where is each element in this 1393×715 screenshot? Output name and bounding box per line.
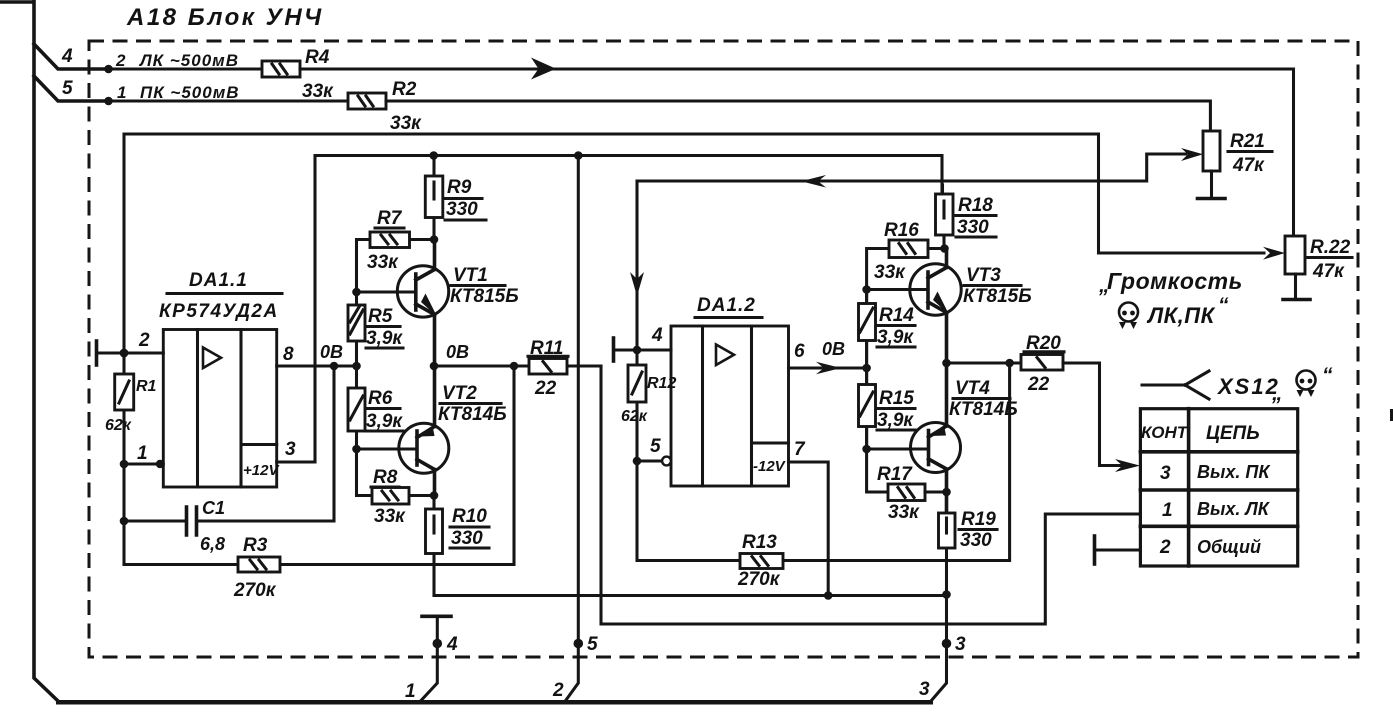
node 0V mid bbox=[352, 362, 361, 371]
svg-text:270к: 270к bbox=[737, 569, 781, 590]
input lead 4 bbox=[34, 44, 108, 69]
wire ЛК input to R4 bbox=[108, 51, 262, 70]
svg-text:3: 3 bbox=[955, 634, 966, 655]
node pin1 box edge bbox=[156, 460, 164, 468]
node VT2 collector / R8 bbox=[430, 491, 439, 500]
wire R21 wiper to DA1.2 input bbox=[637, 154, 1186, 350]
svg-text:33к: 33к bbox=[888, 502, 920, 523]
svg-text:3,9к: 3,9к bbox=[366, 411, 403, 432]
arrow into DA1.2 input bbox=[630, 272, 644, 296]
svg-text:4: 4 bbox=[651, 325, 663, 346]
svg-text:R14: R14 bbox=[879, 305, 914, 326]
svg-text:КТ815Б: КТ815Б bbox=[450, 286, 519, 307]
svg-text:КТ814Б: КТ814Б bbox=[949, 399, 1018, 420]
svg-text:R18: R18 bbox=[958, 195, 993, 216]
+12V rail bbox=[315, 156, 942, 463]
svg-text:КТ815Б: КТ815Б bbox=[963, 286, 1032, 307]
svg-text:XS12: XS12 bbox=[1216, 374, 1280, 399]
resistor R13 bbox=[637, 363, 1010, 590]
arrow on R21 wiper line bbox=[801, 175, 826, 188]
resistor R4 bbox=[262, 47, 334, 102]
node R9 bottom / R7 / VT1 collector bbox=[430, 235, 439, 244]
capacitor C1 bbox=[124, 366, 334, 554]
svg-text:33к: 33к bbox=[390, 113, 422, 134]
input lead 5 bbox=[34, 76, 108, 101]
transistor VT2 bbox=[399, 366, 507, 496]
svg-text:R3: R3 bbox=[243, 535, 268, 556]
svg-text:330: 330 bbox=[960, 530, 992, 551]
svg-text:33к: 33к bbox=[374, 506, 406, 527]
resistor R15 bbox=[859, 368, 916, 449]
svg-text:47к: 47к bbox=[1312, 261, 1345, 282]
svg-text:1: 1 bbox=[117, 83, 126, 102]
svg-text:R.22: R.22 bbox=[1310, 237, 1351, 258]
svg-text:62к: 62к bbox=[105, 417, 132, 434]
svg-text:DA1.2: DA1.2 bbox=[697, 295, 756, 316]
svg-text:+12V: +12V bbox=[243, 462, 280, 479]
pin 8 of DA1.1 bbox=[277, 342, 357, 366]
terminal 5 bbox=[574, 639, 584, 649]
resistor R3 bbox=[124, 366, 514, 601]
svg-text:33к: 33к bbox=[302, 81, 334, 102]
node ЛК input bbox=[104, 65, 113, 74]
svg-text:R7: R7 bbox=[377, 208, 403, 229]
svg-text:КТ814Б: КТ814Б bbox=[438, 404, 507, 425]
svg-text:330: 330 bbox=[446, 199, 478, 220]
wire ПК input to R2 bbox=[108, 83, 348, 102]
svg-text:3,9к: 3,9к bbox=[366, 328, 403, 349]
svg-text:R12: R12 bbox=[647, 375, 676, 392]
node VT2 base bbox=[352, 445, 361, 454]
svg-text:33к: 33к bbox=[874, 262, 906, 283]
ground common for XS12 pin2 bbox=[1095, 536, 1141, 564]
pin 5 of DA1.2 bbox=[637, 436, 671, 465]
transistor VT3 bbox=[910, 249, 1032, 364]
node R13 to output node bbox=[1005, 359, 1014, 368]
wire base VT1 bbox=[357, 290, 416, 293]
svg-text:Общий: Общий bbox=[1197, 537, 1261, 557]
terminal 4 bbox=[433, 639, 443, 649]
svg-text:R5: R5 bbox=[368, 306, 393, 327]
svg-text:0В: 0В bbox=[320, 342, 343, 362]
svg-text:0В: 0В bbox=[822, 339, 845, 359]
svg-text:“: “ bbox=[1322, 364, 1333, 387]
wire R20 out to XS12 row3 bbox=[1063, 363, 1140, 472]
svg-text:VT4: VT4 bbox=[955, 378, 990, 399]
node VT3 emitter / output bbox=[942, 359, 951, 368]
wire R4 to R22 top bbox=[300, 58, 1294, 237]
resistor R19 bbox=[931, 509, 997, 701]
svg-text:4: 4 bbox=[446, 634, 458, 655]
node input R1 bbox=[120, 349, 129, 358]
node VT1 emitter / 0V out bbox=[430, 362, 439, 371]
svg-text:5: 5 bbox=[587, 634, 598, 655]
svg-text:5: 5 bbox=[62, 78, 73, 99]
svg-text:ПК ~500мВ: ПК ~500мВ bbox=[140, 83, 240, 102]
svg-text:C1: C1 bbox=[202, 498, 225, 518]
resistor R20 bbox=[1021, 333, 1064, 395]
svg-text:2: 2 bbox=[115, 51, 126, 70]
svg-text:VT3: VT3 bbox=[966, 265, 1001, 286]
wire base VT4 bbox=[867, 447, 929, 450]
module dashed border bbox=[89, 41, 1358, 657]
svg-text:КОНТ: КОНТ bbox=[1141, 423, 1189, 442]
node pin7 to -12V bbox=[824, 591, 833, 600]
resistor R2 bbox=[348, 79, 422, 134]
resistor R7 bbox=[357, 208, 435, 292]
node VT4 collector / R17 bbox=[942, 488, 951, 497]
svg-text:270к: 270к bbox=[233, 580, 277, 601]
resistor R18 bbox=[936, 185, 997, 249]
pin 6 of DA1.2 bbox=[789, 339, 867, 374]
node ПК input bbox=[104, 97, 113, 106]
svg-text:А18 Блок УНЧ: А18 Блок УНЧ bbox=[126, 4, 324, 31]
op-amp DA1.2 bbox=[671, 295, 789, 486]
node 0V right mid bbox=[862, 364, 871, 373]
svg-text:VT2: VT2 bbox=[442, 383, 477, 404]
svg-text:3,9к: 3,9к bbox=[877, 410, 914, 431]
svg-text:R21: R21 bbox=[1230, 131, 1265, 152]
svg-text:1: 1 bbox=[405, 681, 416, 702]
transistor VT1 bbox=[397, 240, 518, 367]
svg-text:DA1.1: DA1.1 bbox=[189, 270, 248, 291]
svg-text:8: 8 bbox=[283, 344, 294, 365]
node rail R9 bbox=[429, 151, 438, 160]
right bias rail bbox=[867, 249, 889, 493]
svg-text:33к: 33к bbox=[367, 252, 399, 273]
svg-text:R2: R2 bbox=[392, 79, 417, 100]
svg-text:2: 2 bbox=[552, 680, 564, 701]
node pin4 / R12 top bbox=[633, 346, 642, 355]
pin 1 of DA1.1 bbox=[124, 443, 163, 464]
svg-text:3: 3 bbox=[1160, 463, 1171, 484]
svg-text:6: 6 bbox=[794, 341, 805, 362]
left rail down bbox=[122, 464, 125, 565]
node C1 left bbox=[120, 517, 129, 526]
ground common for pin 4 bbox=[422, 616, 452, 700]
svg-text:7: 7 bbox=[794, 439, 806, 460]
svg-text:ЛК ~500мВ: ЛК ~500мВ bbox=[138, 51, 239, 70]
svg-text:2: 2 bbox=[138, 330, 150, 351]
op-amp DA1.1 bbox=[159, 270, 282, 487]
resistor R5 bbox=[348, 292, 403, 366]
potentiometer R22 bbox=[1263, 236, 1352, 300]
svg-text:-12V: -12V bbox=[753, 458, 787, 475]
svg-text:330: 330 bbox=[957, 217, 989, 238]
svg-text:R6: R6 bbox=[368, 388, 393, 409]
node pin1 left bbox=[120, 460, 129, 469]
resistor R17 bbox=[877, 464, 947, 523]
node VT3 base bbox=[862, 285, 871, 294]
pin 3 of DA1.1 bbox=[277, 439, 315, 462]
svg-text:Вых. ЛК: Вых. ЛК bbox=[1197, 499, 1271, 519]
node rail pin5 bbox=[574, 151, 583, 160]
svg-text:„: „ bbox=[1271, 382, 1283, 405]
resistor R6 bbox=[348, 366, 403, 449]
svg-text:330: 330 bbox=[451, 528, 483, 549]
svg-text:3: 3 bbox=[919, 679, 930, 700]
resistor R16 bbox=[874, 220, 945, 283]
wire R2 to R21 top bbox=[386, 101, 1210, 131]
wire R22 wiper to DA1.1 input bbox=[124, 134, 1264, 353]
svg-text:R1: R1 bbox=[136, 378, 157, 395]
node C1 to 0V bbox=[330, 362, 339, 371]
svg-text:22: 22 bbox=[1027, 374, 1050, 395]
svg-text:ЛК,ПК: ЛК,ПК bbox=[1146, 303, 1216, 328]
node VT1 base bbox=[352, 288, 361, 297]
svg-text:2: 2 bbox=[1159, 537, 1171, 558]
wire -12V rail bbox=[434, 594, 946, 597]
wire R11 out to XS12 row1 bbox=[601, 366, 1140, 624]
node R3 to 0V bbox=[510, 362, 519, 371]
svg-text:47к: 47к bbox=[1232, 155, 1265, 176]
node VT4 base bbox=[862, 445, 871, 454]
svg-text:22: 22 bbox=[534, 378, 557, 399]
svg-text:R8: R8 bbox=[373, 467, 398, 488]
svg-text:3,9к: 3,9к bbox=[877, 327, 914, 348]
wire base VT2 bbox=[357, 447, 418, 450]
node R18 bottom / VT3 collector bbox=[940, 244, 949, 253]
headphone icon volume bbox=[1119, 303, 1138, 330]
svg-text:VT1: VT1 bbox=[453, 265, 488, 286]
connector XS12 table bbox=[1140, 409, 1297, 566]
pin 2 of DA1.1 bbox=[97, 330, 164, 365]
resistor R12 bbox=[621, 350, 676, 461]
svg-text:62к: 62к bbox=[621, 408, 648, 425]
svg-text:Вых. ПК: Вых. ПК bbox=[1197, 462, 1271, 482]
resistor R11 bbox=[434, 338, 601, 399]
svg-text:4: 4 bbox=[61, 46, 73, 67]
svg-text:R10: R10 bbox=[452, 506, 487, 527]
svg-text:“: “ bbox=[1218, 294, 1229, 317]
svg-text:1: 1 bbox=[137, 443, 148, 464]
svg-text:R17: R17 bbox=[877, 464, 913, 485]
label Громкость bbox=[1098, 268, 1243, 328]
svg-text:6,8: 6,8 bbox=[200, 534, 225, 554]
outer border bbox=[0, 1, 933, 705]
svg-text:R4: R4 bbox=[305, 47, 330, 68]
connector XS12 symbol bbox=[1142, 364, 1333, 405]
resistor R1 bbox=[105, 353, 157, 464]
potentiometer R21 bbox=[1181, 131, 1272, 199]
svg-text:R15: R15 bbox=[879, 388, 914, 409]
node R19 to -12V bbox=[942, 590, 951, 599]
svg-text:5: 5 bbox=[650, 436, 661, 457]
wire base VT3 bbox=[867, 288, 928, 291]
transistor VT4 bbox=[911, 363, 1018, 513]
terminal 3 bbox=[942, 639, 952, 649]
svg-text:ЦЕПЬ: ЦЕПЬ bbox=[1206, 423, 1260, 444]
svg-text:R9: R9 bbox=[447, 177, 472, 198]
right edge tick bbox=[1390, 409, 1393, 421]
resistor R9 bbox=[425, 156, 486, 240]
svg-text:3: 3 bbox=[285, 439, 296, 460]
wire +12V to terminal 5 bbox=[566, 156, 578, 701]
svg-text:R16: R16 bbox=[884, 220, 919, 241]
node pin5 / R12 bottom bbox=[633, 457, 642, 466]
svg-text:R19: R19 bbox=[961, 509, 996, 530]
resistor R10 bbox=[426, 496, 490, 596]
resistor R14 bbox=[859, 290, 916, 369]
pin 7 of DA1.2 bbox=[789, 439, 829, 596]
resistor R8 bbox=[357, 449, 435, 527]
svg-text:Громкость: Громкость bbox=[1107, 268, 1243, 294]
svg-text:R13: R13 bbox=[742, 532, 777, 553]
svg-text:1: 1 bbox=[1162, 500, 1173, 521]
svg-text:КР574УД2А: КР574УД2А bbox=[159, 301, 279, 322]
wire output node to R20 bbox=[947, 361, 1022, 364]
pin 4 of DA1.2 bbox=[614, 325, 672, 361]
headphone icon XS12 bbox=[1297, 371, 1316, 398]
svg-text:0В: 0В bbox=[446, 342, 469, 362]
